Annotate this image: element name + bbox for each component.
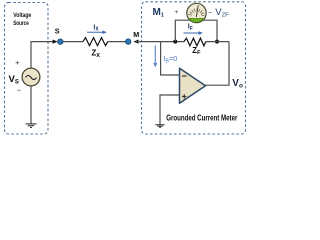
ground source side (26, 124, 37, 128)
wire inverting-input drop (161, 42, 180, 75)
voltage source VS (22, 68, 40, 86)
voltage source enclosure box (5, 3, 49, 135)
svg-text:−: − (17, 85, 22, 94)
junction right of ZF (215, 40, 219, 44)
wire source top to node S (31, 42, 54, 68)
meter movement (analog gauge) (187, 3, 206, 22)
op-amp U1 (180, 68, 206, 103)
feedback wire down to output (228, 42, 230, 86)
wire non-inverting input to ground (160, 95, 180, 125)
wire node S to ZX (63, 41, 83, 43)
svg-text:IF: IF (188, 24, 193, 32)
svg-text:+: + (15, 58, 19, 67)
svg-text:M: M (133, 30, 139, 39)
resistor ZX (83, 38, 108, 46)
arrowhead into node M (134, 40, 139, 44)
svg-text:ZF: ZF (192, 46, 201, 56)
wire node M into meter box (136, 41, 161, 43)
svg-text:+: + (175, 9, 179, 16)
svg-text:S: S (55, 27, 60, 36)
current arrow IB=0 (153, 46, 157, 68)
current arrow IX (87, 30, 107, 34)
svg-text:Source: Source (13, 20, 29, 27)
wire ZX to node M (108, 41, 126, 43)
current arrow IF (184, 31, 204, 35)
svg-text:Voltage: Voltage (13, 12, 31, 19)
wire op-amp output (206, 84, 230, 86)
meter right lead (203, 20, 217, 41)
svg-text:VZF: VZF (215, 7, 229, 19)
wire source bottom to ground (30, 86, 32, 124)
node M (126, 39, 131, 44)
meter left lead (175, 20, 190, 41)
svg-text:IB=0: IB=0 (163, 54, 177, 64)
svg-text:ZX: ZX (92, 49, 101, 59)
ground meter side (155, 125, 164, 128)
node S (58, 39, 63, 44)
grounded current meter enclosure box M1 (142, 2, 246, 134)
arrowhead into node S (53, 40, 58, 44)
svg-text:−: − (208, 10, 212, 17)
svg-text:M1: M1 (153, 7, 164, 19)
resistor ZF (184, 38, 206, 46)
svg-text:Grounded Current Meter: Grounded Current Meter (166, 114, 237, 123)
junction left of ZF (173, 40, 177, 44)
svg-text:VS: VS (9, 74, 19, 85)
svg-text:IX: IX (93, 24, 99, 32)
wire ZF to feedback corner (206, 41, 229, 43)
wire junction to ZF (161, 41, 184, 43)
svg-text:Vo: Vo (232, 78, 243, 90)
